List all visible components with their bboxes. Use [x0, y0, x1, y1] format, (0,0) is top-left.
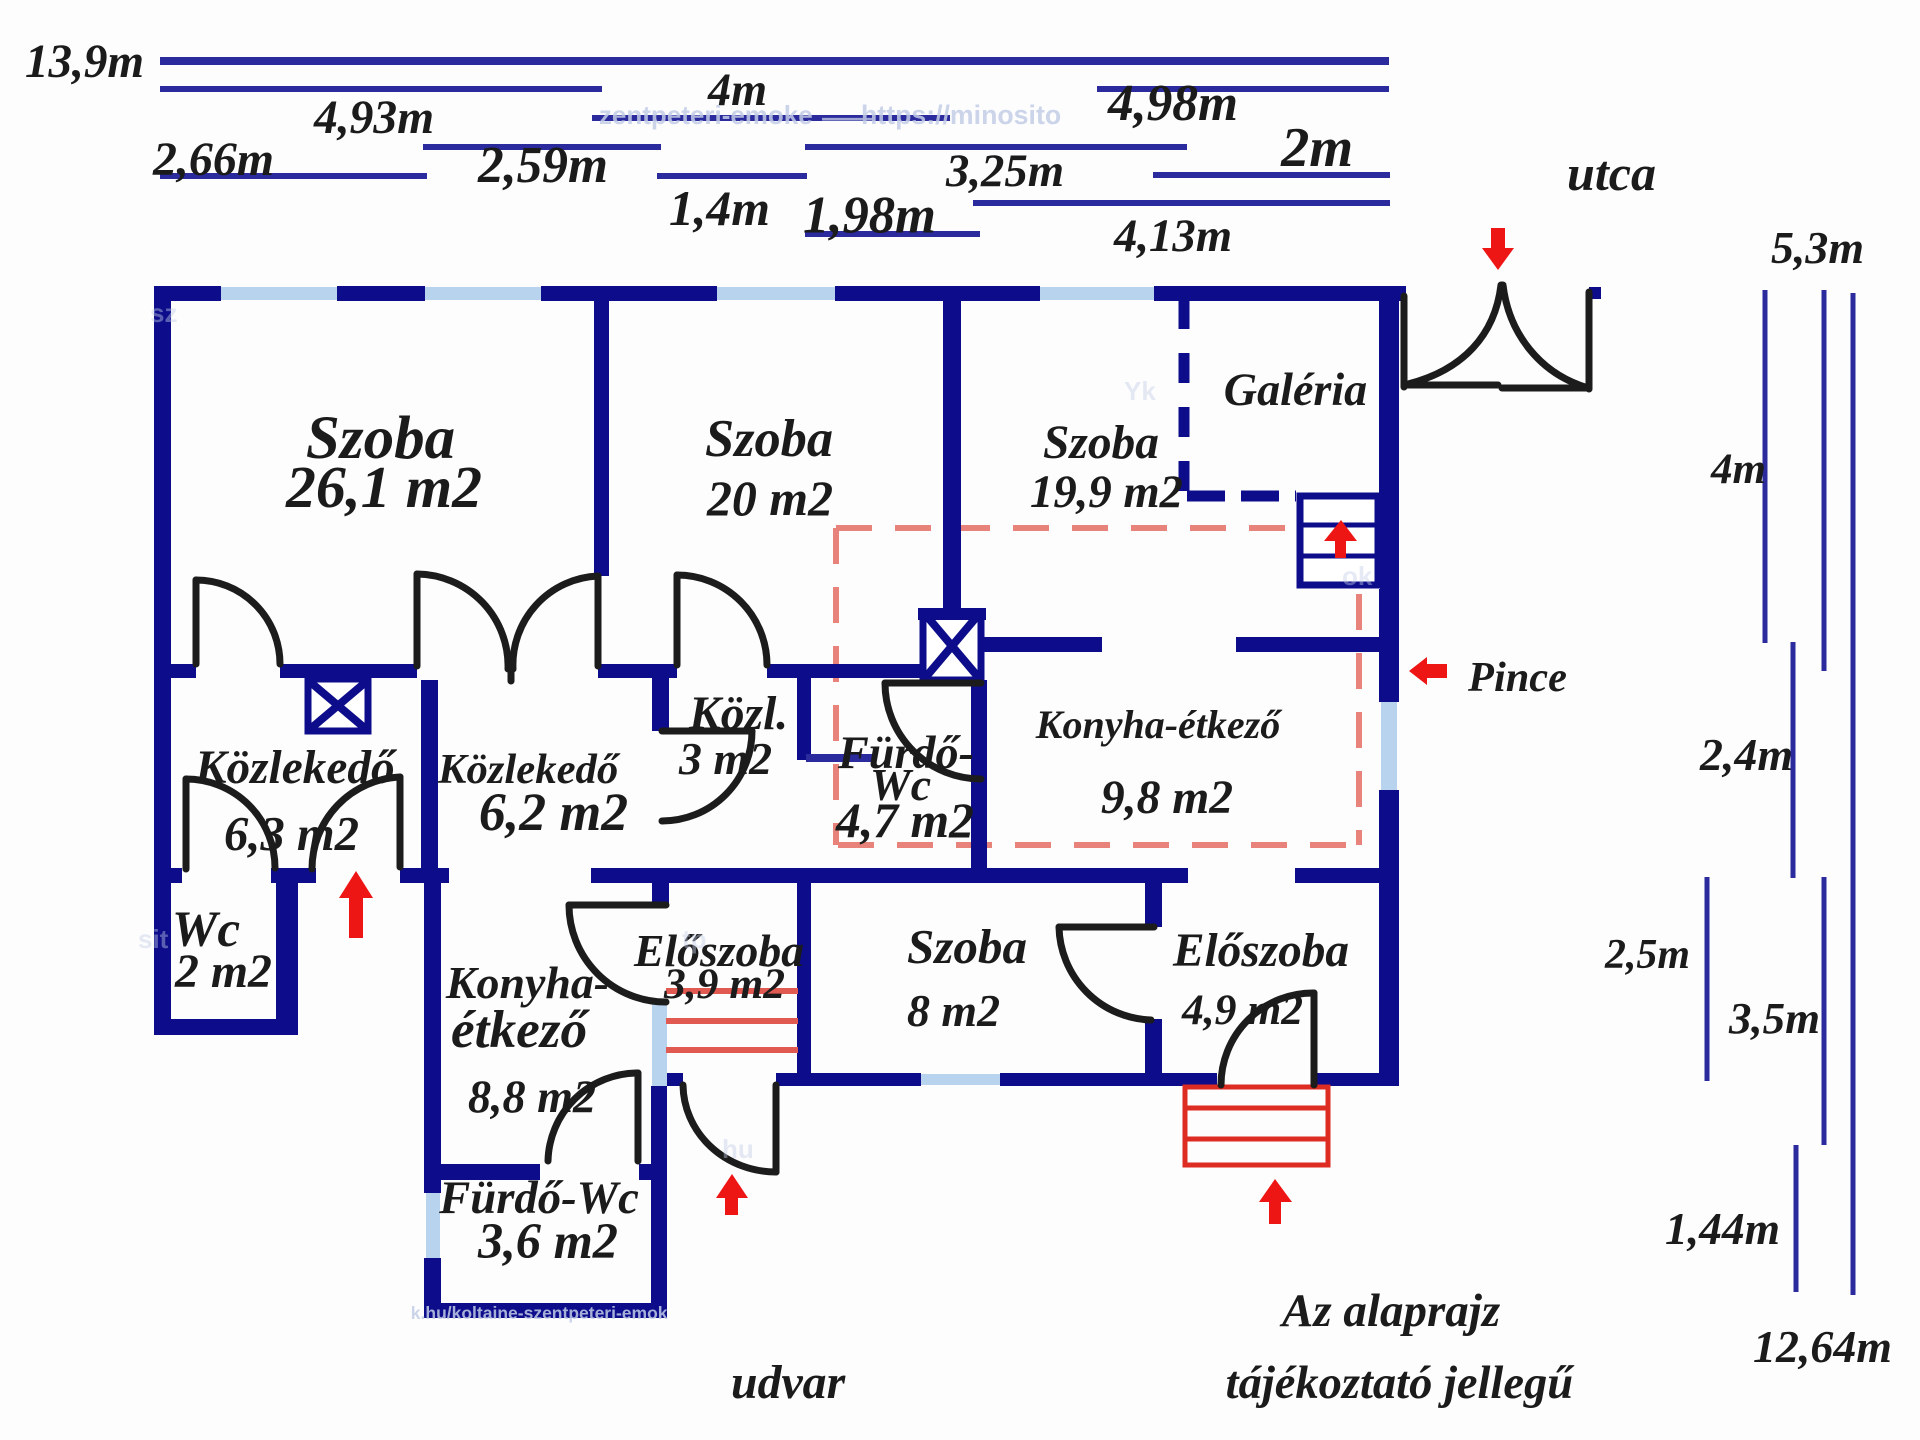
- svg-text:2,5m: 2,5m: [1604, 932, 1690, 978]
- svg-text:Előszoba: Előszoba: [1172, 925, 1349, 977]
- svg-text:udvar: udvar: [731, 1356, 846, 1409]
- svg-text:Közlekedő: Közlekedő: [194, 742, 398, 794]
- svg-text:Szoba: Szoba: [907, 919, 1027, 974]
- svg-text:5,3m: 5,3m: [1771, 222, 1864, 273]
- svg-text:Yk: Yk: [1124, 376, 1156, 406]
- svg-text:1,44m: 1,44m: [1665, 1203, 1780, 1254]
- svg-text:Szoba: Szoba: [705, 410, 833, 468]
- svg-text:2 m2: 2 m2: [174, 945, 272, 998]
- svg-text:19,9 m2: 19,9 m2: [1030, 466, 1183, 518]
- svg-text:tp: tp: [682, 924, 707, 954]
- svg-text:4,93m: 4,93m: [313, 92, 434, 144]
- svg-text:Szoba: Szoba: [1043, 417, 1159, 469]
- svg-text:ok: ok: [1342, 561, 1373, 591]
- svg-text:2,4m: 2,4m: [1699, 729, 1793, 780]
- svg-text:26,1 m2: 26,1 m2: [285, 454, 482, 520]
- svg-text:3,9 m2: 3,9 m2: [663, 960, 785, 1008]
- svg-text:3,6 m2: 3,6 m2: [477, 1213, 618, 1269]
- svg-text:4,7 m2: 4,7 m2: [835, 793, 974, 848]
- svg-text:Pince: Pince: [1467, 654, 1567, 701]
- svg-text:4,98m: 4,98m: [1107, 75, 1238, 132]
- svg-text:étkező: étkező: [451, 1000, 591, 1059]
- svg-text:3,25m: 3,25m: [945, 145, 1064, 197]
- svg-text:hu: hu: [722, 1134, 754, 1164]
- svg-text:1,98m: 1,98m: [803, 187, 936, 245]
- svg-text:2,59m: 2,59m: [477, 137, 608, 194]
- svg-text:sit: sit: [138, 924, 169, 954]
- svg-text:Galéria: Galéria: [1224, 364, 1367, 415]
- svg-text:8 m2: 8 m2: [907, 985, 1000, 1036]
- svg-text:sz: sz: [150, 298, 177, 328]
- svg-text:9,8 m2: 9,8 m2: [1101, 772, 1233, 824]
- svg-text:4,13m: 4,13m: [1113, 210, 1232, 262]
- svg-text:2,66m: 2,66m: [152, 133, 274, 186]
- svg-text:utca: utca: [1567, 145, 1656, 201]
- svg-text:Az alaprajz: Az alaprajz: [1279, 1285, 1501, 1337]
- svg-text:k.hu/koltaine-szentpeteri-emok: k.hu/koltaine-szentpeteri-emok: [411, 1303, 668, 1323]
- svg-text:8,8 m2: 8,8 m2: [468, 1071, 596, 1122]
- svg-text:6,2 m2: 6,2 m2: [479, 782, 628, 842]
- svg-text:4m: 4m: [1710, 446, 1766, 493]
- svg-text:13,9m: 13,9m: [25, 36, 144, 88]
- svg-text:20 m2: 20 m2: [706, 471, 833, 526]
- svg-text:3,5m: 3,5m: [1728, 993, 1820, 1043]
- svg-text:2m: 2m: [1280, 117, 1353, 179]
- svg-text:3 m2: 3 m2: [678, 733, 772, 784]
- svg-text:4,9 m2: 4,9 m2: [1181, 986, 1303, 1034]
- svg-text:zentpeteri-emoke: zentpeteri-emoke: [599, 100, 813, 130]
- svg-text:tájékoztató jellegű: tájékoztató jellegű: [1226, 1358, 1576, 1409]
- svg-text:https://minosito: https://minosito: [861, 100, 1061, 130]
- svg-text:1,4m: 1,4m: [669, 181, 770, 236]
- svg-text:12,64m: 12,64m: [1753, 1321, 1892, 1372]
- svg-text:6,3 m2: 6,3 m2: [224, 807, 359, 861]
- svg-text:Konyha-étkező: Konyha-étkező: [1035, 702, 1283, 747]
